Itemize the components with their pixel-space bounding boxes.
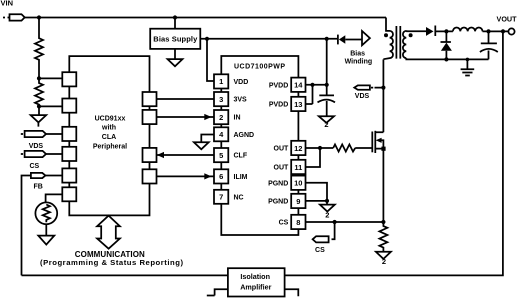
- svg-text:IN: IN: [234, 115, 241, 122]
- wire OUT pin12 to gate: [306, 147, 373, 149]
- pin 3 3VS: [214, 92, 247, 106]
- wire bias rail: [200, 38, 337, 40]
- svg-text:CS: CS: [30, 163, 40, 170]
- svg-text:CS: CS: [279, 220, 289, 227]
- node junction bias/VDD: [205, 37, 209, 41]
- net flag CS right: [313, 236, 329, 254]
- capacitor C2 output: [480, 31, 498, 59]
- svg-text:CS: CS: [315, 247, 325, 254]
- svg-text:ILIM: ILIM: [234, 174, 248, 181]
- wire PGND pin10: [306, 183, 327, 201]
- ground PGND (ref 2): [320, 201, 335, 220]
- wire thermistor to pin: [46, 194, 63, 202]
- pin 6 ILIM: [214, 169, 248, 183]
- node junction OUT12/OUT11: [318, 146, 322, 150]
- svg-text:VDS: VDS: [355, 93, 370, 100]
- bias supply box: [150, 29, 200, 49]
- node junction D3/rail: [444, 57, 448, 61]
- svg-text:6: 6: [219, 172, 223, 181]
- ground AGND: [194, 142, 209, 149]
- gate driver U1 UCD7100PWP outline: [221, 56, 298, 235]
- pin UCD91xx left 3 (VDS): [62, 127, 76, 141]
- wire PVDD pin14: [306, 84, 327, 86]
- svg-text:PVDD: PVDD: [269, 82, 288, 89]
- svg-text:11: 11: [294, 163, 302, 172]
- pin 10 PGND: [268, 176, 305, 190]
- svg-text:2: 2: [324, 120, 328, 129]
- resistor R4 current sense: [379, 222, 387, 252]
- svg-text:CLF: CLF: [234, 153, 248, 160]
- diode D1 bias winding rectifier: [338, 35, 362, 45]
- wire divider tap to UCD91xx pin: [39, 77, 62, 79]
- net flag VDS left: [21, 131, 46, 137]
- net flag CS left: [21, 151, 46, 157]
- pin 7 NC: [214, 190, 244, 204]
- svg-text:2: 2: [382, 257, 386, 266]
- diode D3 freewheeling: [441, 31, 452, 59]
- svg-text:Bias Supply: Bias Supply: [153, 35, 198, 44]
- wire PVDD pin13: [306, 85, 313, 104]
- pin 11 OUT: [274, 160, 306, 174]
- wire MOSFET source down: [382, 149, 384, 222]
- ground bias supply: [168, 49, 183, 66]
- wire feedback bottom rail left: [22, 274, 228, 276]
- thermistor RT: [35, 202, 57, 224]
- wire secondary top: [406, 30, 426, 32]
- transformer T1 secondary: [403, 31, 407, 58]
- capacitor C1 PVDD decoupling: [318, 95, 336, 116]
- svg-text:VDS: VDS: [29, 143, 44, 150]
- svg-text:13: 13: [294, 100, 302, 109]
- svg-text:NC: NC: [234, 194, 244, 201]
- wire VIN top rail: [25, 17, 386, 19]
- pin UCD91xx left 4 (CS): [62, 147, 76, 161]
- svg-text:VIN: VIN: [1, 0, 14, 7]
- svg-text:12: 12: [294, 144, 302, 153]
- wire bias supply input: [174, 18, 176, 29]
- pin 13 PVDD: [269, 97, 306, 111]
- svg-text:with: with: [101, 125, 116, 132]
- node junction pin14/pin13: [310, 83, 314, 87]
- svg-text:UCD7100PWP: UCD7100PWP: [234, 63, 285, 70]
- resistor R2 (lower divider): [35, 78, 43, 106]
- ground secondary earth: [461, 59, 475, 75]
- wire AGND pin4: [201, 135, 214, 143]
- ground sense resistor (ref 2): [376, 252, 391, 266]
- node junction D2/D3/L1: [444, 29, 448, 33]
- pin UCD91xx right A (3VS): [143, 92, 157, 106]
- pin UCD91xx left 6 (thermistor): [62, 187, 76, 201]
- transistor Q1 MOSFET: [372, 131, 385, 153]
- svg-text:OUT: OUT: [274, 146, 290, 153]
- node junction bias rail/PVDD branch: [325, 37, 329, 41]
- node junction PGND: [325, 199, 329, 203]
- svg-text:UCD91xx: UCD91xx: [95, 116, 126, 123]
- pin 8 CS: [279, 215, 306, 229]
- svg-text:3: 3: [219, 95, 223, 104]
- svg-text:14: 14: [294, 81, 303, 90]
- svg-text:VOUT: VOUT: [497, 15, 517, 24]
- pin UCD91xx right B (IN): [143, 110, 157, 124]
- transformer T1 primary polarity dot: [384, 33, 388, 37]
- wire CS pin8 to sense node: [306, 221, 384, 223]
- transformer T1 secondary polarity dot: [409, 33, 413, 37]
- communication double arrow: [97, 216, 120, 249]
- wire IN link with arrow: [157, 114, 215, 120]
- wire CLF link with arrow: [157, 152, 215, 158]
- wire FB to isolation amplifier output: [22, 176, 31, 276]
- pin 5 CLF: [214, 148, 248, 162]
- node junction R1/R2: [37, 76, 41, 80]
- net flag VDS right: [354, 85, 383, 100]
- pin 4 AGND: [214, 127, 254, 141]
- svg-text:CLA: CLA: [102, 134, 116, 141]
- isolation amplifier box: [228, 268, 285, 296]
- svg-text:10: 10: [294, 179, 302, 188]
- wire ILIM link with arrow: [157, 173, 215, 179]
- resistor R3 gate: [333, 144, 355, 151]
- svg-text:PGND: PGND: [268, 199, 288, 206]
- wire CS flag drop: [332, 222, 335, 239]
- VIN input terminal flag: [3, 14, 25, 20]
- svg-text:Bias: Bias: [350, 50, 365, 57]
- pin 12 OUT: [274, 141, 306, 155]
- wire divider bottom to UCD91xx pin: [39, 105, 62, 107]
- svg-text:VDD: VDD: [234, 79, 249, 86]
- wire FB flag to pin: [45, 175, 62, 177]
- svg-text:Peripheral: Peripheral: [93, 144, 127, 151]
- svg-text:(Programming & Status Reportin: (Programming & Status Reporting): [40, 258, 183, 267]
- wire isolation amp right leg: [285, 289, 299, 296]
- node COMMUNICATION label: [40, 250, 183, 267]
- svg-text:8: 8: [296, 218, 300, 227]
- pin UCD91xx right D (ILIM): [143, 169, 157, 183]
- wire 3VS link: [157, 98, 215, 100]
- ground thermistor: [38, 224, 54, 244]
- svg-text:1: 1: [219, 77, 223, 86]
- wire VDD feed: [207, 39, 214, 81]
- pin UCD91xx left 2 (divider bottom): [62, 99, 76, 113]
- svg-text:Winding: Winding: [345, 59, 373, 66]
- svg-text:2: 2: [325, 211, 329, 220]
- node junction CS flag tap: [333, 220, 337, 224]
- wire CS flag to pin: [46, 153, 62, 155]
- transformer T1 core: [396, 26, 400, 59]
- node junction VIN/bias supply: [173, 15, 177, 19]
- svg-text:Isolation: Isolation: [240, 272, 270, 281]
- pin UCD91xx left 5 (FB): [62, 168, 76, 182]
- pin 14 PVDD: [269, 78, 306, 92]
- resistor R1 (upper divider): [35, 18, 43, 79]
- controller U2 UCD91xx box outline: [69, 56, 149, 215]
- pin UCD91xx left 1 (divider tap): [62, 72, 76, 86]
- transformer T1 primary: [383, 18, 393, 60]
- node junction pin14/cap: [325, 83, 329, 87]
- svg-text:2: 2: [219, 113, 223, 122]
- inductor L1: [446, 27, 482, 31]
- svg-text:PGND: PGND: [268, 180, 288, 187]
- wire OUT pin11: [306, 148, 320, 167]
- wire VOUT sense bottom rail right: [285, 31, 503, 275]
- wire PVDD branch vertical: [326, 39, 328, 95]
- node junction VDS tap: [381, 86, 385, 90]
- ground divider: [31, 106, 47, 126]
- net flag FB: [31, 173, 46, 178]
- VOUT output terminal: [497, 15, 517, 35]
- svg-text:5: 5: [219, 151, 223, 160]
- svg-text:AGND: AGND: [234, 132, 255, 139]
- pin 1 VDD: [214, 74, 248, 88]
- svg-text:FB: FB: [34, 183, 43, 190]
- wire PGND pin9: [306, 200, 327, 202]
- ground C1 (secondary ref 2): [319, 116, 334, 129]
- pin UCD91xx right C (CLF): [143, 148, 157, 162]
- controller U2 label: [93, 116, 127, 151]
- pin 9 PGND: [268, 194, 305, 208]
- node junction L1/C2: [486, 29, 490, 33]
- svg-text:7: 7: [219, 193, 223, 202]
- wire L1 to VOUT: [483, 30, 509, 32]
- node junction MOSFET source/CS: [381, 220, 385, 224]
- wire VDS flag to pin: [46, 133, 62, 135]
- pin 2 IN: [214, 110, 241, 124]
- node junction VIN/R1: [37, 15, 41, 19]
- svg-text:PVDD: PVDD: [269, 102, 288, 109]
- node junction R2/ground: [37, 104, 41, 108]
- wire isolation amp left ground leg: [207, 289, 228, 295]
- node junction ground/rail: [466, 58, 470, 62]
- svg-text:OUT: OUT: [274, 165, 290, 172]
- wire secondary bottom rail: [406, 58, 488, 59]
- diode D2 output rectifier: [426, 26, 446, 37]
- svg-text:9: 9: [296, 197, 300, 206]
- off-page connector Bias Winding: [345, 31, 373, 66]
- node junction VOUT sense: [501, 29, 505, 33]
- wire MOSFET drain to transformer: [382, 59, 384, 132]
- svg-text:3VS: 3VS: [234, 97, 248, 104]
- svg-text:Amplifier: Amplifier: [240, 282, 271, 291]
